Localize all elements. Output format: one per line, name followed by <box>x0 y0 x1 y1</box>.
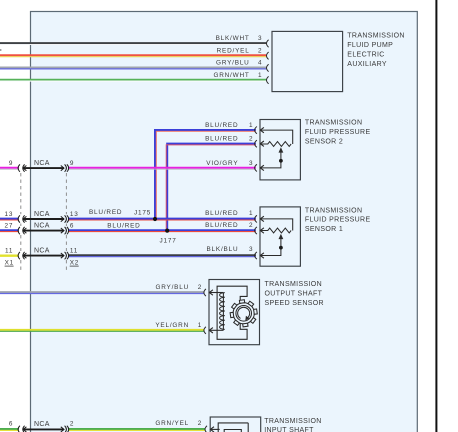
wire BLU/RED sensor2 pin2 via J177 <box>166 144 256 231</box>
label BLU/RED 2 (sensor1) <box>205 222 253 229</box>
svg-text:NCA: NCA <box>34 421 50 428</box>
input sensor pin 2 connector <box>205 426 207 432</box>
clipped label fragment at left edge <box>0 49 1 51</box>
output sensor pin 1 connector <box>204 327 206 334</box>
svg-text:NCA: NCA <box>34 248 50 255</box>
output sensor stator bracket <box>217 286 247 339</box>
svg-text:2: 2 <box>249 222 253 229</box>
sensor2 junction dot <box>279 159 283 163</box>
svg-text:TRANSMISSION: TRANSMISSION <box>347 32 404 39</box>
output sensor coil <box>222 293 224 331</box>
input sensor stator bracket <box>218 423 248 432</box>
output sensor pin 2 connector <box>204 289 206 296</box>
sensor2 pin 1 arrow <box>260 127 264 132</box>
svg-text:TRANSMISSION: TRANSMISSION <box>265 281 322 288</box>
label VIO/GRY 3 <box>206 160 253 167</box>
sensor2 internal potentiometer <box>260 130 292 168</box>
sensor1 pin 2 arrow <box>260 228 264 233</box>
transmission fluid pump electric auxiliary box <box>272 31 343 91</box>
label TRANSMISSION FLUID PRESSURE SENSOR 2 <box>305 120 371 146</box>
svg-text:NCA: NCA <box>34 211 50 218</box>
wire GRN/YEL to input speed sensor pin2 <box>68 429 206 430</box>
svg-text:9: 9 <box>9 160 13 167</box>
svg-text:2: 2 <box>70 421 74 428</box>
label YEL/GRN 1 (output sensor) <box>155 322 202 329</box>
label BLU/RED 2 (sensor2) <box>205 136 253 143</box>
sensor1 wiper arrowhead <box>279 234 284 239</box>
svg-text:INPUT SHAFT: INPUT SHAFT <box>264 427 314 432</box>
label connector X1 <box>5 260 14 267</box>
connector dashed link right column <box>65 173 67 273</box>
svg-text:TRANSMISSION: TRANSMISSION <box>264 418 321 425</box>
transmission fluid pressure sensor 2 box <box>260 120 300 180</box>
sensor2 pin 1 connector <box>255 127 257 134</box>
svg-text:SENSOR 1: SENSOR 1 <box>305 226 343 233</box>
svg-text:SPEED SENSOR: SPEED SENSOR <box>265 300 324 307</box>
svg-text:6: 6 <box>9 421 13 428</box>
output sensor pin 2 arrow <box>209 290 223 295</box>
connector NCA row1 <box>18 164 69 171</box>
wire BLU/RED left stub row2 <box>0 219 19 220</box>
svg-text:AUXILIARY: AUXILIARY <box>347 61 387 68</box>
wire GRN/YEL left stub row5 <box>0 429 19 430</box>
label TRANSMISSION FLUID PRESSURE SENSOR 1 <box>305 207 371 233</box>
label TRANSMISSION OUTPUT SHAFT SPEED SENSOR <box>265 281 324 307</box>
label GRY/BLU 4 <box>216 60 262 67</box>
svg-text:BLK/WHT: BLK/WHT <box>216 35 250 42</box>
svg-text:RED/YEL: RED/YEL <box>217 47 250 54</box>
transmission output shaft speed sensor box <box>209 280 260 345</box>
connector NCA row2 <box>18 215 69 222</box>
svg-text:NCA: NCA <box>34 160 50 167</box>
wire BLU/RED sensor2 pin1 via J175 <box>155 130 256 219</box>
label GRY/BLU 2 (output sensor) <box>155 284 202 291</box>
wire GRY/BLU to output speed sensor pin2 <box>0 292 204 293</box>
svg-text:J177: J177 <box>160 237 177 244</box>
output sensor pin 1 arrow <box>209 328 223 333</box>
svg-text:ELECTRIC: ELECTRIC <box>347 51 384 58</box>
pump pin 2 connector <box>267 52 269 59</box>
svg-text:1: 1 <box>258 72 262 79</box>
wire YEL left stub row4 <box>0 254 19 256</box>
transmission input shaft speed sensor box <box>210 417 261 432</box>
svg-text:SENSOR 2: SENSOR 2 <box>305 138 343 145</box>
wire BLU/RED row3 to sensor1 pin2 <box>68 230 256 231</box>
svg-text:1: 1 <box>249 210 253 217</box>
svg-text:1: 1 <box>249 122 253 129</box>
svg-text:13: 13 <box>4 211 13 218</box>
wire GRY/BLU to pump pin 4 <box>0 68 266 69</box>
wire GRN/WHT to pump pin 1 <box>0 80 266 81</box>
connector NCA row4 <box>18 252 69 259</box>
svg-text:GRY/BLU: GRY/BLU <box>216 60 250 67</box>
svg-text:X1: X1 <box>5 260 14 267</box>
sensor1 pin 1 arrow <box>260 216 264 221</box>
junction J175 <box>153 217 157 221</box>
svg-text:TRANSMISSION: TRANSMISSION <box>305 207 362 214</box>
wire VIO/GRY left stub row1 <box>0 168 19 169</box>
page divider line <box>435 0 437 432</box>
svg-text:VIO/GRY: VIO/GRY <box>206 160 238 167</box>
svg-text:2: 2 <box>258 47 262 54</box>
svg-text:6: 6 <box>70 223 74 230</box>
svg-text:GRY/BLU: GRY/BLU <box>155 284 189 291</box>
label TRANSMISSION FLUID PUMP ELECTRIC AUXILIARY <box>347 32 404 67</box>
wire BLU/RED row2 to sensor1 pin1 <box>68 219 256 220</box>
sensor1 junction dot <box>279 246 283 250</box>
svg-text:GRN/WHT: GRN/WHT <box>213 72 249 79</box>
label BLK/WHT 3 <box>216 35 263 42</box>
svg-text:4: 4 <box>258 60 262 67</box>
svg-text:FLUID PRESSURE: FLUID PRESSURE <box>305 217 371 224</box>
wire RED/YEL to pump pin 2 <box>0 55 266 56</box>
sensor2 pin 2 arrow <box>260 141 264 146</box>
svg-text:2: 2 <box>198 284 202 291</box>
svg-text:11: 11 <box>5 248 13 255</box>
sensor2 pin 3 arrow <box>260 165 264 170</box>
pump pin 3 connector <box>267 40 269 47</box>
input sensor pin 2 arrow <box>210 427 219 432</box>
label BLU/RED 1 (sensor1) <box>205 210 253 217</box>
label GRN/YEL 2 (input sensor) <box>155 420 202 427</box>
label BLK/BLU 3 <box>207 246 254 253</box>
svg-text:BLU/RED: BLU/RED <box>205 222 238 229</box>
pump pin 4 connector <box>267 64 269 71</box>
wire YEL/GRN to output speed sensor pin1 <box>0 330 204 331</box>
connector NCA row5 <box>18 426 69 432</box>
output sensor tone wheel <box>230 300 257 327</box>
sensor1 pin 3 connector <box>255 252 257 259</box>
label GRN/WHT 1 <box>213 72 262 79</box>
svg-text:NCA: NCA <box>34 223 50 230</box>
sensor2 wiper arrowhead <box>279 147 284 152</box>
sensor1 internal potentiometer <box>260 219 292 256</box>
sensor1 pin 2 connector <box>255 227 257 234</box>
label connector X2 <box>70 260 79 267</box>
pump pin 1 connector <box>267 76 269 83</box>
svg-text:X2: X2 <box>70 260 79 267</box>
svg-text:OUTPUT SHAFT: OUTPUT SHAFT <box>265 291 323 298</box>
svg-text:J175: J175 <box>134 209 151 216</box>
svg-text:BLU/RED: BLU/RED <box>89 209 122 216</box>
sensor1 pin 1 connector <box>255 215 257 222</box>
sensor2 pin 3 connector <box>255 164 257 171</box>
svg-text:11: 11 <box>70 248 78 255</box>
sensor1 pin 3 arrow <box>260 253 264 258</box>
svg-text:BLK/BLU: BLK/BLU <box>207 246 239 253</box>
svg-text:13: 13 <box>70 211 79 218</box>
svg-text:TRANSMISSION: TRANSMISSION <box>305 120 362 127</box>
transmission fluid pressure sensor 1 box <box>260 207 300 266</box>
label RED/YEL 2 <box>217 47 263 54</box>
connector dashed link left column <box>20 173 22 273</box>
wire VIO/GRY sensor2 pin3 <box>68 168 256 169</box>
label BLU/RED 1 (sensor2) <box>205 122 253 129</box>
svg-text:BLU/RED: BLU/RED <box>205 122 238 129</box>
svg-text:BLU/RED: BLU/RED <box>205 136 238 143</box>
junction J177 <box>165 229 169 233</box>
svg-text:2: 2 <box>198 420 202 427</box>
wire BLK/BLU row4 to sensor1 pin3 <box>68 255 256 256</box>
svg-text:1: 1 <box>198 322 202 329</box>
svg-text:GRN/YEL: GRN/YEL <box>155 420 189 427</box>
wire BLK/WHT to pump pin 3 <box>0 43 266 44</box>
connector NCA row3 <box>18 227 69 234</box>
sensor2 pin 2 connector <box>255 140 257 147</box>
svg-text:BLU/RED: BLU/RED <box>107 222 140 229</box>
svg-text:2: 2 <box>249 136 253 143</box>
wire BLU/RED left stub row3 <box>0 230 19 231</box>
label TRANSMISSION INPUT SHAFT <box>264 418 321 432</box>
svg-text:BLU/RED: BLU/RED <box>205 210 238 217</box>
svg-text:3: 3 <box>249 246 253 253</box>
svg-text:27: 27 <box>4 223 13 230</box>
svg-text:9: 9 <box>70 160 74 167</box>
svg-text:YEL/GRN: YEL/GRN <box>155 322 189 329</box>
svg-text:3: 3 <box>249 160 253 167</box>
svg-text:FLUID PRESSURE: FLUID PRESSURE <box>305 129 371 136</box>
svg-text:3: 3 <box>258 35 262 42</box>
svg-text:FLUID PUMP: FLUID PUMP <box>347 42 393 49</box>
